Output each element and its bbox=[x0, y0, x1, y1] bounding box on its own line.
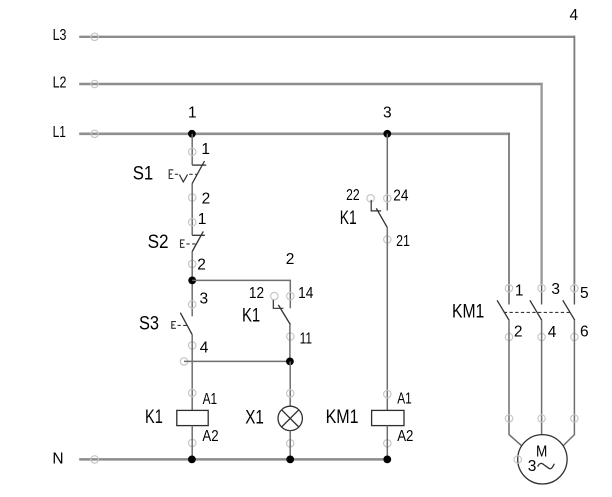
svg-text:4: 4 bbox=[570, 7, 579, 24]
node 1 bbox=[188, 104, 197, 137]
svg-text:M: M bbox=[536, 444, 547, 461]
svg-text:4: 4 bbox=[548, 324, 557, 341]
svg-text:K1: K1 bbox=[340, 207, 357, 229]
svg-text:2: 2 bbox=[197, 257, 206, 274]
svg-text:L1: L1 bbox=[53, 124, 66, 141]
svg-text:24: 24 bbox=[393, 187, 409, 204]
wire junction to lamp X1 bbox=[289, 361, 291, 406]
wire contact K1 21 to coil KM1 bbox=[386, 227, 388, 410]
svg-text:4: 4 bbox=[200, 340, 209, 357]
rail N bbox=[52, 450, 387, 467]
wire KM1 pole3 to motor bbox=[563, 320, 574, 445]
svg-text:K1: K1 bbox=[242, 304, 260, 326]
svg-text:A2: A2 bbox=[202, 428, 218, 445]
svg-text:1: 1 bbox=[188, 104, 197, 121]
wire node2 to K1 contact 14 bbox=[192, 280, 290, 308]
node 2 bbox=[188, 251, 294, 284]
contact K1 22-24-21 bbox=[340, 187, 410, 250]
svg-text:A1: A1 bbox=[203, 391, 218, 408]
wire KM1 pole1 to motor bbox=[509, 320, 521, 445]
svg-text:2: 2 bbox=[514, 324, 523, 341]
switch S1 bbox=[133, 141, 211, 207]
svg-text:1: 1 bbox=[201, 141, 210, 158]
motor M 3~ bbox=[505, 415, 578, 484]
wire S3 to coil K1 bbox=[191, 335, 193, 411]
svg-text:L3: L3 bbox=[53, 27, 67, 44]
wire L1 node1 to S1 bbox=[191, 134, 193, 165]
wire branch S3 bottom to junction bbox=[180, 358, 290, 365]
svg-text:X1: X1 bbox=[245, 406, 264, 428]
svg-text:S1: S1 bbox=[133, 163, 154, 185]
svg-text:3: 3 bbox=[383, 105, 392, 122]
svg-text:11: 11 bbox=[300, 331, 312, 348]
node 3 bbox=[383, 105, 392, 138]
svg-text:L2: L2 bbox=[53, 74, 67, 91]
contactor KM1 main contacts bbox=[452, 281, 589, 341]
svg-text:S2: S2 bbox=[148, 231, 169, 253]
svg-text:3: 3 bbox=[200, 291, 209, 308]
svg-text:21: 21 bbox=[396, 233, 410, 250]
svg-text:3: 3 bbox=[551, 281, 560, 298]
svg-text:2: 2 bbox=[202, 190, 211, 207]
svg-text:6: 6 bbox=[580, 324, 589, 341]
rail L1 bbox=[53, 124, 510, 285]
relay coil K1 bbox=[145, 389, 219, 446]
wire coil K1 to N bbox=[191, 426, 193, 460]
contactor coil KM1 bbox=[326, 390, 414, 447]
svg-text:KM1: KM1 bbox=[452, 301, 484, 323]
wire KM1 pole2 to motor bbox=[541, 320, 543, 434]
rail L2 bbox=[53, 74, 543, 285]
svg-text:1: 1 bbox=[198, 211, 207, 228]
svg-text:5: 5 bbox=[580, 285, 589, 302]
svg-text:22: 22 bbox=[346, 187, 360, 204]
svg-text:KM1: KM1 bbox=[326, 406, 359, 428]
svg-text:S3: S3 bbox=[139, 312, 159, 334]
svg-text:3: 3 bbox=[528, 458, 537, 475]
junction X1 on N bbox=[286, 456, 294, 464]
svg-text:14: 14 bbox=[298, 285, 314, 302]
junction KM1 on N bbox=[383, 456, 391, 464]
svg-text:2: 2 bbox=[286, 251, 295, 268]
svg-text:1: 1 bbox=[515, 282, 524, 299]
junction node on branch bbox=[286, 358, 294, 366]
svg-text:A1: A1 bbox=[397, 391, 412, 408]
wire S2 to node2 to S3 bbox=[191, 252, 193, 317]
wire coil KM1 to N bbox=[386, 426, 388, 460]
svg-text:K1: K1 bbox=[145, 406, 163, 428]
svg-text:12: 12 bbox=[249, 285, 264, 302]
junction K1 on N bbox=[188, 456, 196, 464]
wire K1 contact 11 to junction bbox=[289, 324, 291, 361]
lamp X1 bbox=[245, 390, 302, 447]
switch S3 bbox=[139, 291, 209, 357]
rail L3 bbox=[53, 27, 575, 285]
switch S2 bbox=[148, 211, 207, 274]
wire node3 to contact K1 24 bbox=[386, 134, 388, 211]
wire S1 to S2 bbox=[191, 184, 193, 236]
wire lamp X1 to N bbox=[289, 431, 291, 460]
svg-text:A2: A2 bbox=[397, 428, 413, 445]
svg-text:N: N bbox=[52, 450, 63, 467]
contact K1 12-14-11 bbox=[242, 285, 314, 348]
